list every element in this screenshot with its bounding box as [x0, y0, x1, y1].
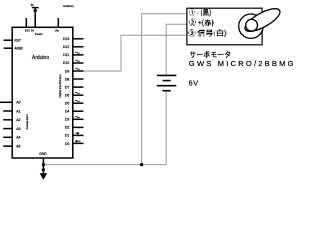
pin D7 stub (right) [72, 86, 83, 88]
servo connector box [187, 8, 262, 45]
svg-text:Arduino1: Arduino1 [63, 4, 74, 8]
pin D11 stub (right) [72, 54, 83, 56]
servo icon horn (rotated ellipse) [242, 4, 283, 35]
svg-text:D13: D13 [63, 37, 69, 41]
svg-text:A3: A3 [16, 127, 20, 131]
wire: ground rail from Arduino GND to battery [43, 164, 166, 166]
svg-text:Digital Input/Output: Digital Input/Output [58, 74, 62, 97]
PWM mark ~ on pin D6 [75, 92, 79, 93]
svg-text:D3: D3 [65, 118, 70, 122]
svg-text:GWS MICRO/2BBMG: GWS MICRO/2BBMG [189, 59, 296, 68]
battery plate long (+) [157, 85, 176, 87]
pin A0 stub (left) [0, 101, 12, 103]
svg-text:A0: A0 [16, 101, 20, 105]
servo pin 3 label: (3) signal (white) [188, 29, 227, 37]
junction: GND pin to ground rail [42, 163, 45, 166]
pin D10 stub (right) [72, 62, 83, 64]
pin AREF stub (left) [4, 47, 13, 49]
RX arrow mark on pin D0 [76, 140, 80, 142]
svg-text:D2: D2 [65, 126, 70, 130]
svg-text:AREF: AREF [14, 46, 23, 50]
pin D9 stub (right) [72, 70, 83, 72]
pin A2 stub (left) [3, 119, 12, 121]
power flag junction dot on 5V [34, 9, 37, 12]
pin RST stub (left) [4, 39, 13, 41]
pin D5 stub (right) [72, 102, 83, 104]
pin D2 stub (right) [72, 126, 83, 128]
servo pin 1 label: (1) - (black) [189, 8, 211, 16]
pin D6 stub (right) [72, 94, 83, 96]
svg-text:D9: D9 [65, 69, 70, 73]
pin A3 stub (left) [3, 128, 12, 130]
power flag +5V bar [32, 7, 39, 9]
svg-text:D4: D4 [65, 110, 70, 114]
wire: servo signal (white) from Arduino D9 to servo pin 3 [84, 35, 187, 71]
PWM mark ~ on pin D11 [75, 52, 79, 53]
Arduino board U1 body [12, 27, 73, 158]
pin A4 stub (left) [3, 136, 12, 138]
servo name: servo motor (katakana) [190, 51, 231, 58]
battery plate short (-) bottom [163, 90, 171, 92]
TX arrow mark on pin D1 [75, 132, 79, 134]
servo pin 2 label: (2) + (red) [189, 19, 214, 27]
junction: black lead joins ground rail [140, 163, 143, 166]
battery B1 plate long (+) top [157, 74, 176, 76]
pin D8 stub (right) [72, 78, 83, 80]
svg-text:6V: 6V [189, 78, 199, 87]
pin D12 stub (right) [72, 46, 83, 48]
junction: GND pin to ground symbol [42, 168, 45, 171]
pin D4 stub (right) [72, 110, 83, 112]
servo icon outer circle (case) [239, 14, 263, 38]
svg-text:Power: Power [35, 32, 43, 36]
pin 3V3 stub (top) [25, 18, 27, 27]
wire: battery negative down to ground rail [165, 91, 167, 165]
svg-text:D1: D1 [65, 134, 70, 138]
pin GND stub (bottom) [42, 158, 44, 174]
PWM mark ~ on pin D3 [75, 116, 79, 117]
svg-text:A2: A2 [16, 118, 20, 122]
svg-text:GND: GND [39, 152, 47, 156]
svg-text:D12: D12 [63, 45, 69, 49]
svg-text:D10: D10 [63, 61, 69, 65]
svg-text:D0: D0 [65, 142, 70, 146]
svg-text:D11: D11 [63, 53, 69, 57]
wire: servo plus (red) lead from servo pin 2 down to battery + [166, 24, 187, 75]
svg-text:RST: RST [14, 38, 21, 42]
pin 5V stub (top) with wire to power flag [34, 8, 36, 28]
wire: servo minus (black) lead from servo pin 1 down to ground rail [142, 14, 187, 165]
svg-text:D5: D5 [65, 102, 70, 106]
pin D3 stub (right) [72, 118, 83, 120]
servo icon shaft inner circle [246, 19, 258, 31]
pin D1 stub (right) [72, 134, 83, 136]
PWM mark ~ on pin D9 [75, 68, 79, 69]
svg-text:D8: D8 [65, 77, 70, 81]
pin D13 stub (right) [72, 38, 83, 40]
PWM mark ~ on pin D5 [75, 100, 79, 101]
svg-text:D7: D7 [65, 85, 70, 89]
svg-text:Arduino: Arduino [32, 55, 49, 61]
pin A5 stub (left) [3, 145, 12, 147]
svg-text:5V: 5V [31, 3, 34, 7]
svg-text:D6: D6 [65, 94, 70, 98]
battery plate short (-) [163, 80, 171, 82]
svg-text:A4: A4 [16, 136, 20, 140]
svg-text:3V3: 3V3 [25, 28, 30, 32]
pin A1 stub (left) [3, 110, 12, 112]
svg-text:A1: A1 [16, 109, 20, 113]
PWM mark ~ on pin D10 [75, 60, 79, 61]
svg-text:A5: A5 [16, 144, 20, 148]
svg-text:Vin: Vin [55, 28, 59, 32]
pin Vin stub (top) [57, 18, 59, 27]
svg-text:Analog Input: Analog Input [25, 114, 29, 129]
ground symbol (arrow) [40, 173, 48, 179]
pin D0 stub (right) [72, 142, 83, 144]
